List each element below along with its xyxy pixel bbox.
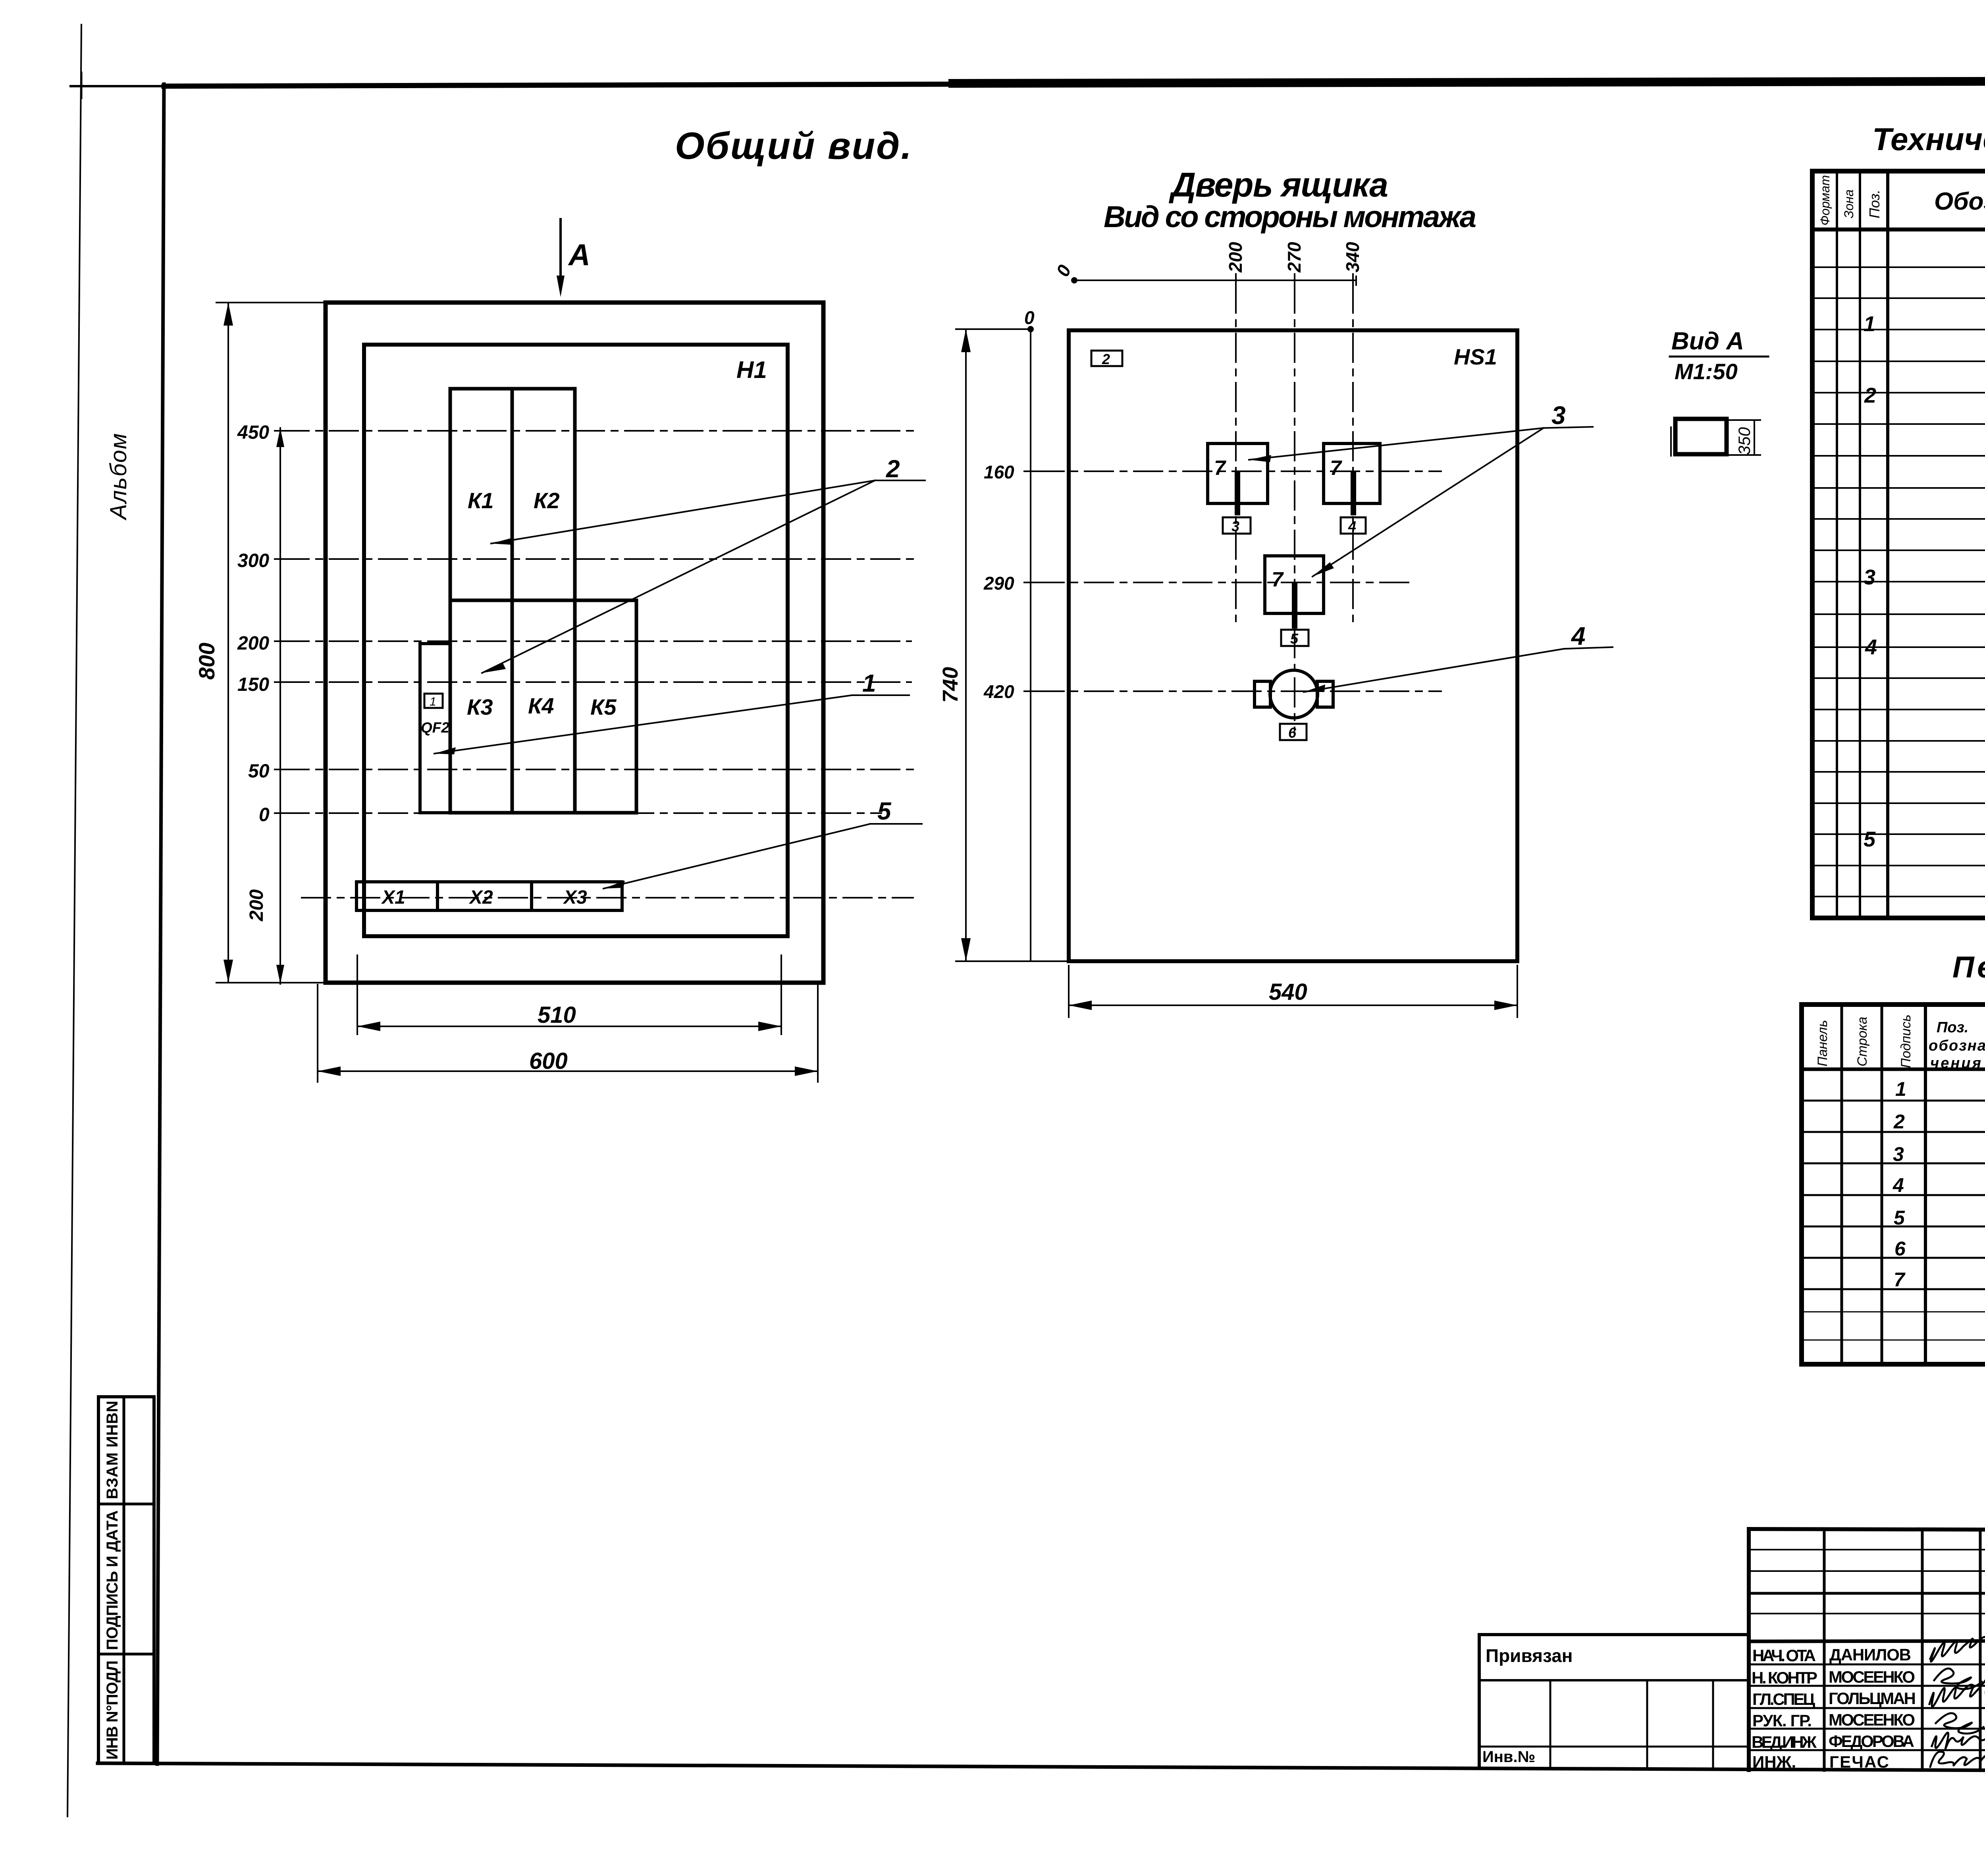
title block attachment box Привязан — [1479, 1635, 1749, 1769]
leader 3 — [1249, 427, 1593, 576]
leader 2 — [482, 480, 925, 673]
svg-text:РУК. ГР.: РУК. ГР. — [1752, 1711, 1812, 1730]
svg-text:0: 0 — [259, 804, 270, 825]
dimension 740 — [956, 329, 1069, 961]
svg-text:Привязан: Привязан — [1486, 1645, 1573, 1666]
breaker QF2 box — [420, 644, 450, 813]
svg-text:1: 1 — [430, 695, 436, 708]
door rectangle HS1 — [1069, 330, 1517, 961]
svg-text:800: 800 — [194, 643, 219, 680]
left tick — [1670, 427, 1672, 456]
svg-text:ГЕЧАС: ГЕЧАС — [1829, 1753, 1889, 1771]
svg-text:4: 4 — [1348, 518, 1356, 534]
svg-text:QF2: QF2 — [421, 719, 449, 736]
svg-text:Инв.№: Инв.№ — [1482, 1748, 1535, 1766]
thin upper rows — [1749, 1549, 1985, 1550]
switch SA square 1 — [1208, 443, 1268, 503]
svg-text:200: 200 — [246, 889, 267, 922]
detail rectangle — [1675, 419, 1727, 454]
svg-text:1: 1 — [1895, 1078, 1906, 1100]
leader 1 — [434, 695, 909, 754]
door centerlines horizontal — [1035, 471, 1441, 691]
svg-text:Поз.: Поз. — [1937, 1019, 1969, 1036]
QF2 inner square — [424, 694, 443, 708]
coordinate scale line — [279, 428, 281, 984]
svg-text:Перечень надписей: Перечень надписей — [1952, 951, 1985, 984]
left stamp table — [98, 1397, 154, 1763]
centerlines levels — [280, 431, 917, 898]
terminal strip X1 X2 X3 — [357, 882, 622, 910]
switch SA square 2 — [1324, 443, 1380, 503]
svg-text:420: 420 — [983, 681, 1014, 702]
svg-text:5: 5 — [1290, 630, 1299, 647]
svg-text:450: 450 — [237, 422, 269, 443]
svg-text:50: 50 — [248, 761, 270, 782]
svg-text:300: 300 — [237, 550, 269, 571]
dimension 800 — [216, 303, 328, 983]
trim line left margin — [67, 25, 81, 1816]
dimension 540 — [1069, 966, 1517, 1017]
svg-text:2: 2 — [1893, 1111, 1905, 1133]
svg-text:Зона: Зона — [1842, 189, 1856, 218]
plate box 2 — [1091, 351, 1122, 366]
svg-text:чения: чения — [1930, 1055, 1981, 1072]
svg-text:НS1: НS1 — [1454, 344, 1497, 369]
svg-text:Н1: Н1 — [736, 357, 767, 383]
svg-text:2: 2 — [1864, 384, 1876, 407]
top border thin extension — [71, 85, 164, 87]
top coordinate line — [1074, 280, 1356, 281]
signer roles — [1752, 1646, 1817, 1771]
svg-text:Формат: Формат — [1818, 175, 1832, 226]
svg-text:4: 4 — [1571, 622, 1586, 650]
svg-text:340: 340 — [1342, 242, 1363, 272]
svg-text:Общий вид.: Общий вид. — [675, 125, 912, 167]
frame left border — [157, 84, 164, 1764]
nameplate box 4 — [1341, 517, 1366, 534]
svg-text:Альбом: Альбом — [106, 432, 131, 521]
svg-text:3: 3 — [1864, 565, 1875, 589]
svg-text:К1: К1 — [468, 488, 494, 513]
svg-text:3: 3 — [1893, 1143, 1904, 1165]
trim tick top — [81, 73, 83, 98]
svg-text:ВЕД.ИНЖ: ВЕД.ИНЖ — [1752, 1733, 1817, 1751]
svg-text:обозна: обозна — [1929, 1037, 1985, 1054]
svg-text:5: 5 — [1894, 1207, 1905, 1229]
list table header line — [1802, 1068, 1985, 1071]
svg-text:7: 7 — [1894, 1269, 1906, 1291]
major divider — [1749, 1640, 1985, 1641]
svg-text:Поз.: Поз. — [1866, 190, 1883, 218]
switch 2 handle — [1351, 474, 1356, 513]
tech table row lines — [1812, 267, 1985, 897]
door centerlines vertical — [1236, 284, 1353, 731]
svg-text:510: 510 — [538, 1002, 576, 1028]
svg-text:Обозначение: Обозначение — [1934, 188, 1985, 215]
switch 3 handle — [1292, 584, 1297, 626]
list table row lines — [1802, 1101, 1985, 1289]
left coordinate line — [1030, 329, 1031, 961]
view direction arrow A — [557, 219, 565, 297]
dimension 600 — [318, 985, 818, 1082]
svg-text:740: 740 — [939, 667, 962, 703]
svg-text:НАЧ. ОТА: НАЧ. ОТА — [1752, 1646, 1816, 1665]
frame bottom border — [98, 1763, 1985, 1772]
nameplate box 5 — [1281, 630, 1309, 646]
list table columns — [1842, 1005, 1985, 1364]
tech table column lines — [1837, 171, 1985, 918]
svg-text:ГОЛЬЦМАН: ГОЛЬЦМАН — [1829, 1689, 1916, 1708]
dimension 350 — [1729, 420, 1760, 455]
svg-text:К5: К5 — [590, 694, 617, 719]
svg-text:Технические данные аппаратов: Технические данные аппаратов — [1872, 121, 1985, 157]
switch SA square 3 — [1265, 556, 1324, 613]
leader 4 — [1304, 647, 1613, 692]
divider K4|K5 — [573, 600, 577, 813]
svg-text:Строка: Строка — [1855, 1017, 1870, 1066]
svg-text:ИНЖ.: ИНЖ. — [1752, 1753, 1796, 1771]
svg-text:Вид А: Вид А — [1671, 328, 1744, 355]
SB1 left tab — [1255, 681, 1270, 707]
nameplate box 3 — [1223, 517, 1251, 534]
svg-text:1: 1 — [1864, 312, 1875, 336]
svg-text:4: 4 — [1892, 1174, 1904, 1196]
svg-text:Вид со стороны монтажа: Вид со стороны монтажа — [1104, 200, 1476, 234]
svg-text:3: 3 — [1231, 518, 1239, 534]
divider K1|K2 / K3|K4 — [511, 389, 514, 813]
svg-text:ДАНИЛОВ: ДАНИЛОВ — [1829, 1645, 1911, 1664]
svg-text:Н. КОНТР: Н. КОНТР — [1752, 1668, 1817, 1687]
svg-text:270: 270 — [1284, 242, 1305, 273]
frame top border — [164, 84, 953, 86]
svg-text:К2: К2 — [534, 488, 560, 513]
svg-text:ВЗАМ ИНВN: ВЗАМ ИНВN — [104, 1401, 121, 1499]
svg-text:К3: К3 — [467, 694, 493, 719]
svg-text:0: 0 — [1052, 262, 1075, 280]
svg-text:7: 7 — [1330, 457, 1342, 480]
svg-text:7: 7 — [1272, 568, 1284, 591]
svg-text:М1:50: М1:50 — [1675, 359, 1738, 384]
list table outer — [1802, 1005, 1985, 1364]
svg-text:3: 3 — [1551, 401, 1566, 430]
signer rows — [1749, 1664, 1985, 1666]
switch 1 handle — [1235, 474, 1240, 513]
svg-text:7: 7 — [1214, 457, 1226, 480]
svg-text:1: 1 — [862, 670, 876, 697]
SB1 right tab — [1317, 681, 1333, 707]
svg-text:ПОДПИСЬ И ДАТА: ПОДПИСЬ И ДАТА — [104, 1510, 121, 1650]
svg-text:290: 290 — [983, 573, 1014, 594]
svg-text:Подпись: Подпись — [1898, 1014, 1914, 1068]
svg-text:200: 200 — [1225, 242, 1246, 273]
svg-text:К4: К4 — [528, 693, 554, 718]
svg-text:350: 350 — [1735, 427, 1754, 455]
svg-text:А: А — [568, 238, 590, 272]
svg-text:2: 2 — [1102, 351, 1110, 367]
svg-text:150: 150 — [237, 674, 269, 695]
svg-text:200: 200 — [237, 633, 269, 654]
dimension 510 — [357, 955, 781, 1034]
svg-text:600: 600 — [529, 1048, 568, 1074]
svg-text:Панель: Панель — [1815, 1020, 1830, 1066]
svg-text:Дверь ящика: Дверь ящика — [1168, 166, 1388, 204]
left sub-table columns — [1823, 1529, 1826, 1770]
tech table header line — [1812, 228, 1985, 231]
leader 5 — [603, 824, 922, 889]
svg-text:ГЛ.СПЕЦ: ГЛ.СПЕЦ — [1752, 1690, 1815, 1708]
svg-text:4: 4 — [1865, 635, 1877, 659]
title block main outline — [1749, 1529, 1985, 1773]
svg-text:5: 5 — [1864, 827, 1876, 851]
svg-text:МОСЕЕНКО: МОСЕЕНКО — [1829, 1710, 1915, 1729]
signatures — [1929, 1637, 1985, 1767]
svg-text:МОСЕЕНКО: МОСЕЕНКО — [1829, 1668, 1915, 1686]
tech table outer — [1812, 171, 1985, 918]
svg-text:2: 2 — [886, 455, 900, 483]
svg-text:ФЕДОРОВА: ФЕДОРОВА — [1829, 1732, 1914, 1751]
svg-text:0: 0 — [1024, 307, 1035, 328]
svg-text:ИНВ N°ПОДЛ: ИНВ N°ПОДЛ — [104, 1660, 121, 1760]
svg-text:160: 160 — [984, 462, 1014, 482]
svg-text:540: 540 — [1269, 979, 1307, 1005]
svg-text:5: 5 — [877, 798, 892, 825]
packet switch SB1 circle — [1270, 670, 1318, 718]
relay block K3 K4 K5 — [450, 600, 636, 813]
svg-text:6: 6 — [1288, 725, 1297, 741]
relay block K1 K2 — [450, 389, 575, 600]
svg-text:6: 6 — [1894, 1238, 1906, 1260]
cabinet outer rectangle — [326, 303, 823, 983]
nameplate box 6 — [1280, 724, 1307, 740]
signer names — [1829, 1645, 1916, 1771]
cabinet panel H1 rectangle — [364, 345, 788, 936]
